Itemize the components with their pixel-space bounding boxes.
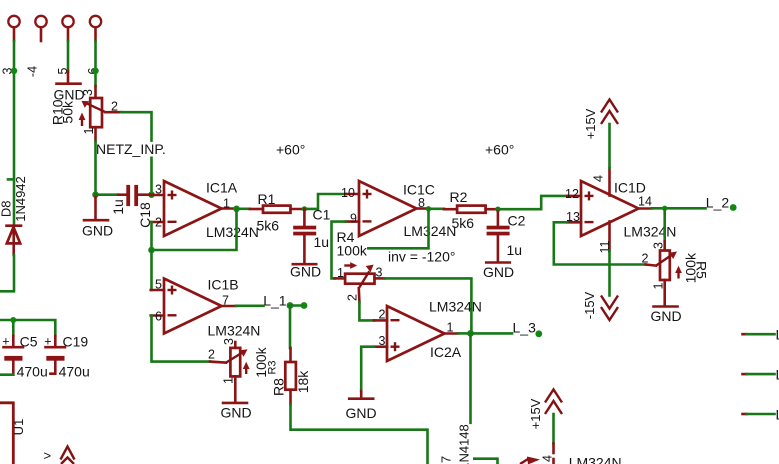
wire IC2A out <box>458 332 470 335</box>
ground (R3) <box>220 403 251 421</box>
wire IC1A feedback <box>152 209 237 250</box>
svg-text:R2: R2 <box>450 189 468 205</box>
svg-text:NETZ_INP.: NETZ_INP. <box>96 141 166 157</box>
svg-text:470u: 470u <box>17 364 48 380</box>
wire IC1B out to L_1 <box>236 304 264 307</box>
svg-text:+15V: +15V <box>583 108 598 139</box>
svg-text:9: 9 <box>350 212 357 226</box>
wire IC1C out to R2 <box>429 208 444 211</box>
potentiometer R5 100k <box>642 242 710 306</box>
wire down to IC1B pin5 <box>150 250 153 290</box>
wire C18 left <box>96 193 119 196</box>
capacitor C1 1u <box>293 207 330 264</box>
svg-text:1N4148: 1N4148 <box>457 424 472 464</box>
svg-text:R5: R5 <box>693 261 709 279</box>
svg-text:2: 2 <box>346 294 360 301</box>
supply +15V (IC1D) <box>583 100 618 169</box>
wire R1 to IC1C pin10 <box>304 194 345 209</box>
svg-text:D8: D8 <box>0 200 13 217</box>
svg-text:LM324N: LM324N <box>206 224 259 240</box>
node dot feedback tee <box>148 247 155 254</box>
pad labels <box>1 66 101 77</box>
ground (below C18 node) <box>82 195 113 239</box>
svg-text:IC1A: IC1A <box>206 180 238 196</box>
wire to L_3 <box>471 332 513 335</box>
svg-text:U1: U1 <box>11 419 26 436</box>
wire bottom stub <box>474 459 497 464</box>
svg-text:18k: 18k <box>295 370 311 394</box>
wire stub right L6 <box>743 407 779 423</box>
svg-text:+: + <box>2 335 9 349</box>
svg-text:GND: GND <box>220 405 251 421</box>
wire left edge to caps C5 C19 <box>0 320 55 336</box>
svg-text:3: 3 <box>376 266 383 280</box>
svg-text:C1: C1 <box>313 207 331 223</box>
wire R10 pin1 down <box>94 142 97 195</box>
resistor R8 18k <box>270 348 311 404</box>
svg-text:1: 1 <box>223 197 230 211</box>
resistor R1 5k6 <box>250 191 305 234</box>
op-amp IC1B <box>151 277 261 339</box>
svg-text:-15V: -15V <box>582 291 597 319</box>
wire D8 down to left edge <box>0 255 14 291</box>
svg-text:1N4942: 1N4942 <box>13 176 28 222</box>
supply -15V (IC1D) <box>582 251 618 321</box>
ground (top, pad 5) <box>53 72 84 103</box>
ground (C1) <box>290 264 321 280</box>
svg-text:LM324N: LM324N <box>624 224 677 240</box>
wire L_1 down to R8 <box>289 306 292 349</box>
wire IC1D pin13 feedback to R5 wiper <box>554 222 646 264</box>
svg-text:GND: GND <box>650 308 681 324</box>
svg-text:L_3: L_3 <box>513 320 537 336</box>
svg-text:C2: C2 <box>508 213 526 229</box>
svg-text:GND: GND <box>345 405 376 421</box>
node dot R1/C1 <box>302 206 307 211</box>
svg-text:LM324N: LM324N <box>208 323 261 339</box>
svg-text:470u: 470u <box>59 364 90 380</box>
pad 5 <box>62 16 73 41</box>
node dot IC2A output <box>467 330 474 337</box>
resistor R2 5k6 <box>444 189 498 231</box>
svg-text:>: > <box>44 448 52 463</box>
svg-text:100k: 100k <box>337 243 368 259</box>
ground (R5) <box>650 307 681 325</box>
wire IC1A out to R1 <box>237 208 250 211</box>
wire pad5 to gnd <box>67 41 70 72</box>
svg-text:2: 2 <box>111 100 118 114</box>
node dot R5 tee <box>662 206 667 211</box>
svg-text:3: 3 <box>222 338 236 345</box>
wire pad3 column <box>13 41 16 224</box>
capacitor C18 1u <box>110 185 153 228</box>
capacitor C5 470u <box>2 334 48 380</box>
op-amp IC1C <box>341 181 456 239</box>
supply +15V (bottom IC2B) <box>528 390 562 464</box>
svg-text:IC1B: IC1B <box>208 277 239 293</box>
wire IC2A out down to diode <box>469 333 472 422</box>
supply arrow (bottom left, cut) <box>61 447 75 464</box>
node dot IC1A output <box>233 206 240 213</box>
node dot pad3 column <box>11 68 18 75</box>
svg-text:L_2: L_2 <box>706 195 730 211</box>
capacitor C19 470u <box>44 334 90 380</box>
svg-text:R1: R1 <box>258 191 276 207</box>
potentiometer R4 100k <box>335 229 385 302</box>
node dot C18 right <box>148 191 155 198</box>
capacitor C2 1u <box>487 209 526 261</box>
wire IC1C pin9 to R4 <box>332 222 346 279</box>
svg-text:7: 7 <box>222 294 229 308</box>
wire stub right L4 <box>743 327 779 343</box>
node dot R2/C2 <box>495 207 500 212</box>
wire stub left of D8 <box>8 178 14 181</box>
pad 3 <box>8 16 19 41</box>
node dot L_1 a <box>287 302 294 309</box>
pad 4 <box>35 16 46 41</box>
wire IC1D out to L_2 <box>652 207 706 210</box>
op-amp IC2A <box>374 299 482 362</box>
svg-text:7: 7 <box>439 456 454 463</box>
svg-text:2: 2 <box>379 308 386 322</box>
svg-text:50k: 50k <box>60 100 76 124</box>
svg-text:3: 3 <box>81 89 95 96</box>
svg-text:+60°: +60° <box>485 142 514 158</box>
svg-text:3: 3 <box>379 334 386 348</box>
wire R8 bottom long run <box>291 404 428 464</box>
node dot caps feed <box>10 317 16 323</box>
potentiometer wiper fragment (bottom) <box>520 457 540 464</box>
svg-text:2: 2 <box>155 216 162 230</box>
svg-text:GND: GND <box>82 223 113 239</box>
svg-text:LM324N: LM324N <box>429 299 482 315</box>
svg-text:14: 14 <box>638 195 652 209</box>
svg-text:IC1C: IC1C <box>403 182 435 198</box>
diode D8 1N4942 <box>0 176 28 255</box>
svg-text:LM324N: LM324N <box>569 455 622 464</box>
wire C5 bottom to left edge <box>0 373 13 376</box>
svg-text:IC2A: IC2A <box>430 344 462 360</box>
svg-text:L: L <box>776 327 779 343</box>
node dot L_3 <box>535 330 542 337</box>
svg-text:C19: C19 <box>63 334 89 350</box>
wire stub right L5 <box>743 367 779 383</box>
svg-text:3: 3 <box>155 183 162 197</box>
svg-text:1: 1 <box>447 321 454 335</box>
svg-text:5: 5 <box>155 278 162 292</box>
node dot L_1 b <box>301 302 308 309</box>
svg-text:4: 4 <box>592 175 606 182</box>
svg-text:2: 2 <box>642 252 649 266</box>
svg-text:3: 3 <box>652 242 666 249</box>
svg-text:5k6: 5k6 <box>257 218 280 234</box>
wire feedback up to pin2 <box>150 222 153 250</box>
wire R4 wiper to IC2A pin2 <box>359 302 374 320</box>
wire IC1D out down to R5 pin3 <box>663 208 666 241</box>
wire C2 to IC1D pin12 <box>498 196 567 209</box>
svg-text:1u: 1u <box>314 234 330 250</box>
node dot L_2 <box>730 204 737 211</box>
svg-text:R8: R8 <box>270 378 286 396</box>
wire R10 wiper to net NETZ_INP <box>121 112 152 140</box>
svg-text:C5: C5 <box>20 334 38 350</box>
potentiometer R3 100k <box>208 338 279 402</box>
svg-text:+60°: +60° <box>276 142 305 158</box>
node dot IC1C output <box>426 206 431 211</box>
IC U1 box corner <box>0 403 13 464</box>
svg-text:GND: GND <box>483 264 514 280</box>
svg-text:12: 12 <box>565 187 579 201</box>
svg-text:5k6: 5k6 <box>452 215 475 231</box>
svg-text:+15V: +15V <box>528 398 543 429</box>
svg-text:L: L <box>776 367 779 383</box>
svg-text:1: 1 <box>337 266 344 280</box>
pad 6 <box>90 16 101 41</box>
potentiometer R10 50k <box>50 86 121 142</box>
wire IC2A pin3 to gnd <box>361 347 374 391</box>
svg-text:inv = -120°: inv = -120° <box>388 249 455 265</box>
node dot C18 left <box>92 191 99 198</box>
wire R4 pin3 to IC2A out <box>384 278 471 333</box>
svg-text:1u: 1u <box>507 242 523 258</box>
node dot pad6 column <box>92 68 99 75</box>
svg-text:LM324N: LM324N <box>404 223 457 239</box>
wire pad6 to R10 <box>94 41 97 86</box>
svg-text:+: + <box>44 335 51 349</box>
wire between dots <box>290 304 304 307</box>
wire cap C5 drop <box>12 320 15 336</box>
svg-text:2: 2 <box>208 348 215 362</box>
svg-text:1: 1 <box>82 127 96 134</box>
svg-text:4: 4 <box>541 455 555 462</box>
svg-text:-4: -4 <box>26 66 40 77</box>
op-amp IC1D <box>565 168 676 253</box>
wire IC1B feedback to R3 <box>152 316 211 362</box>
ground (C2) <box>483 263 514 281</box>
op-amp IC1A <box>151 180 259 241</box>
svg-text:L: L <box>776 407 779 423</box>
svg-text:1: 1 <box>222 377 236 384</box>
svg-text:6: 6 <box>155 310 162 324</box>
svg-text:GND: GND <box>290 264 321 280</box>
wire IC1C feedback <box>368 209 428 249</box>
svg-text:8: 8 <box>418 196 425 210</box>
svg-text:10: 10 <box>341 186 355 200</box>
svg-text:1u: 1u <box>110 199 126 215</box>
svg-text:R3: R3 <box>267 360 279 374</box>
svg-text:L_1: L_1 <box>263 293 287 309</box>
svg-text:IC1D: IC1D <box>614 180 646 196</box>
ground (IC2A) <box>345 391 376 421</box>
wire netz vertical lower <box>150 158 153 195</box>
svg-text:1: 1 <box>652 282 666 289</box>
